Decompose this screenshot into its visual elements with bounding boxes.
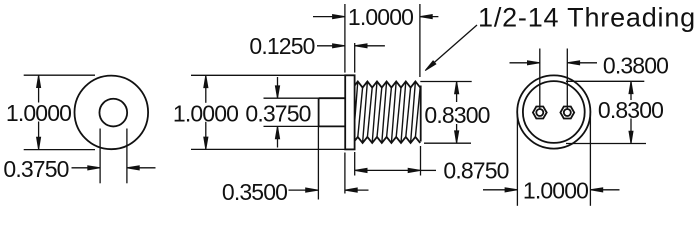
right view: right pin hex and contact [560, 107, 574, 119]
svg-text:0.3750: 0.3750 [245, 100, 310, 126]
svg-text:0.3500: 0.3500 [222, 179, 287, 205]
middle view: flange plate outline 0.1250 thick [345, 75, 354, 149]
dimension 0.8300 middle view thread OD: ext lines, arrows, text [420, 82, 489, 144]
dimension 0.3500 neck length: ext lines, arrows, text [222, 126, 369, 205]
svg-text:1/2-14 Threading: 1/2-14 Threading [478, 3, 696, 33]
dimension 0.8300 right view inner dia: ext lines, arrows, text [566, 81, 663, 143]
dimension 0.1250 flange thickness: ext line, arrows, text [249, 33, 385, 73]
left view: center hole circle 0.3750 dia [99, 99, 127, 127]
left view: flange front face outer circle [75, 76, 149, 150]
middle view: rear pilot neck outline [319, 98, 346, 126]
svg-text:0.3750: 0.3750 [3, 156, 68, 182]
dimension 0.3800 pin spacing: ext lines, arrows, text [510, 49, 669, 110]
dimension 1.0000 middle view flange dia (left vertical): ext lines, arrows, text [173, 75, 345, 149]
right view: left pin hex and contact [533, 107, 547, 119]
svg-text:1.0000: 1.0000 [523, 178, 588, 204]
dimension 0.8750 thread+flange length: ext lines, arrows, text [355, 146, 509, 183]
svg-text:0.1250: 0.1250 [249, 33, 314, 59]
middle view: threaded body 1/2-14 profile [355, 82, 421, 143]
dimension 1.0000 left view vertical: extension lines, dim line, arrows, text [6, 75, 95, 149]
dimension 0.3750 left view hole dia: extension lines, arrows, text [3, 129, 155, 184]
leader and note: 1/2-14 Threading [425, 3, 696, 71]
svg-text:0.3800: 0.3800 [603, 52, 668, 78]
svg-text:0.8300: 0.8300 [598, 97, 663, 123]
dimension 0.3750 middle view neck dia: ext lines, arrows, text [245, 77, 318, 148]
svg-text:0.8300: 0.8300 [424, 102, 489, 128]
svg-text:1.0000: 1.0000 [348, 4, 413, 30]
right view: inner circle 0.8300 thread relief [523, 81, 585, 143]
dimension 1.0000 right view outer dia (bottom): ext lines, arrows, text [483, 114, 620, 206]
svg-text:0.8750: 0.8750 [443, 157, 508, 183]
right view: outer circle (flange back face) [517, 75, 590, 148]
dimension 1.0000 middle view thread length (top): ext lines, arrows, text [313, 4, 438, 77]
svg-text:1.0000: 1.0000 [6, 100, 71, 126]
svg-text:1.0000: 1.0000 [173, 100, 238, 126]
